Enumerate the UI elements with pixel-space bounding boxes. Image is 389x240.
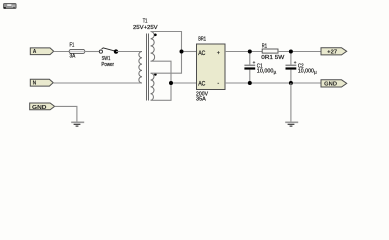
earth ground right [285, 122, 298, 126]
wire GND left flag to earth [55, 106, 77, 121]
wire A flag to fuse [54, 51, 70, 53]
wire C2 node to earth [290, 83, 292, 122]
junction C2 top [289, 50, 293, 54]
svg-text:+27: +27 [327, 49, 337, 55]
phase dot upper [154, 34, 157, 37]
phase dot lower [154, 73, 157, 76]
svg-text:µ: µ [274, 69, 277, 74]
node A flag [30, 48, 53, 55]
wire node to BR1 AC2 [171, 82, 197, 84]
svg-text:AC: AC [198, 81, 206, 87]
svg-text:+: + [217, 50, 220, 56]
svg-text:35A: 35A [196, 96, 206, 102]
junction C2 bottom [289, 81, 293, 85]
svg-text:3A: 3A [70, 54, 76, 60]
svg-text:R1: R1 [262, 44, 267, 50]
junction C1 top [248, 50, 252, 54]
svg-text:N: N [33, 81, 37, 87]
svg-text:+: + [294, 60, 297, 65]
wire BR1 + to R1 [225, 51, 262, 53]
svg-text:25V+25V: 25V+25V [133, 25, 158, 31]
junction C1 bottom [248, 81, 252, 85]
svg-text:BR1: BR1 [198, 37, 206, 43]
core [146, 34, 148, 101]
secondary winding lower [151, 73, 154, 100]
svg-text:0R1 5W: 0R1 5W [261, 55, 284, 61]
wire BR1 - rail to GND flag [225, 82, 321, 84]
svg-text:GND: GND [324, 82, 337, 88]
node GND flag right [321, 80, 347, 88]
junction AC1 [180, 50, 184, 54]
earth ground left [71, 122, 84, 126]
wire secondary upper top to node [151, 32, 182, 74]
junction AC2 [169, 81, 173, 85]
wire fuse to switch [85, 51, 99, 53]
fuse F1 [69, 43, 85, 60]
svg-text:µ: µ [314, 69, 317, 74]
capacitor C1 [244, 52, 276, 84]
svg-text:-: - [217, 81, 219, 87]
svg-text:Power: Power [101, 62, 114, 68]
svg-text:10,000: 10,000 [257, 69, 274, 75]
wire N flag to transformer primary bottom [53, 82, 141, 84]
wire node to BR1 AC1 [182, 51, 198, 53]
svg-text:+: + [253, 60, 256, 65]
svg-text:A: A [33, 49, 37, 55]
node GND flag left [30, 103, 55, 111]
wire R1 to +27 flag [278, 51, 321, 53]
toolbar icon [4, 3, 17, 8]
svg-text:AC: AC [198, 51, 206, 57]
svg-text:GND: GND [32, 105, 47, 111]
svg-text:F1: F1 [70, 43, 75, 49]
svg-text:T1: T1 [143, 19, 148, 25]
node N flag [30, 79, 53, 86]
switch SW1 [99, 48, 118, 68]
resistor R1 [261, 44, 284, 61]
wire switch to transformer primary top [116, 51, 142, 53]
bridge rectifier BR1 [196, 37, 225, 103]
secondary winding upper [151, 32, 155, 62]
node +27 flag [321, 48, 347, 56]
transformer T1 [133, 19, 158, 101]
capacitor C2 [286, 52, 318, 84]
primary winding [139, 51, 142, 83]
svg-text:10,000: 10,000 [298, 69, 314, 75]
wire secondary upper bottom to node [151, 61, 171, 100]
